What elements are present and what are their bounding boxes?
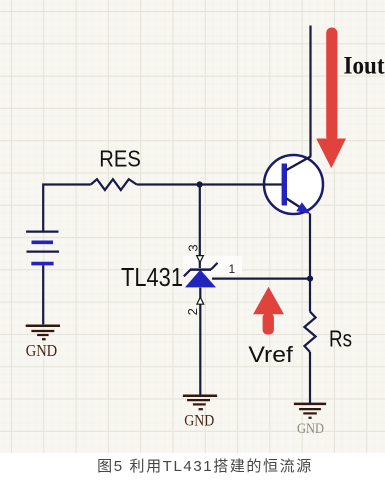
wire emitter to Rs	[309, 214, 311, 312]
battery BT1	[26, 232, 59, 264]
caption	[97, 455, 313, 476]
wire TL431 anode (pin 2) to ground	[199, 288, 201, 395]
wire TL431 ref (pin 1)	[212, 278, 310, 280]
svg-text:GND: GND	[26, 341, 58, 360]
svg-text:1: 1	[229, 262, 236, 276]
wire Rs to ground	[309, 352, 311, 404]
ground center	[183, 396, 217, 409]
wire battery positive to RES	[43, 185, 91, 232]
wire TL431 cathode branch	[199, 185, 201, 269]
Vref red arrow	[253, 287, 284, 335]
ground left	[26, 326, 60, 339]
svg-text:GND: GND	[297, 421, 324, 437]
Iout red arrow	[316, 28, 346, 169]
wire battery negative to ground	[42, 265, 44, 324]
wire collector	[309, 26, 311, 157]
svg-text:Iout: Iout	[344, 52, 385, 79]
TL431 body highlight	[183, 256, 242, 275]
transistor Q1	[263, 155, 323, 214]
svg-text:2: 2	[185, 308, 200, 315]
TL431 U1 symbol	[184, 263, 218, 288]
wire base (RES to transistor)	[137, 183, 282, 185]
pin 3 marker	[197, 256, 204, 263]
junction node emitter/Rs/ref	[307, 276, 313, 282]
svg-text:TL431: TL431	[121, 264, 183, 292]
ground right	[294, 404, 326, 418]
resistor RES	[91, 179, 137, 190]
svg-text:RES: RES	[99, 145, 141, 171]
resistor Rs	[304, 312, 315, 352]
svg-text:3: 3	[186, 244, 201, 251]
svg-text:Rs: Rs	[329, 326, 352, 352]
pin 2 marker	[197, 297, 204, 304]
svg-text:GND: GND	[184, 413, 214, 430]
svg-text:Vref: Vref	[248, 342, 293, 367]
junction node at TL431 branch	[197, 181, 203, 187]
